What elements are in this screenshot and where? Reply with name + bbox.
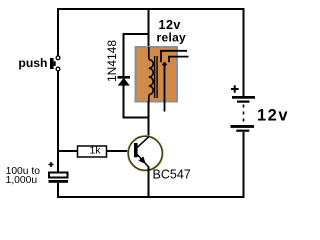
relay contact upper (NO) <box>161 51 187 62</box>
wire emitter to bottom rail <box>148 167 150 198</box>
svg-text:1,000u: 1,000u <box>6 175 38 186</box>
wire right rail upper <box>243 8 245 96</box>
svg-text:12v: 12v <box>257 106 289 124</box>
node base-resistor junction <box>58 150 78 152</box>
svg-text:1N4148: 1N4148 <box>105 40 119 82</box>
wire bottom rail <box>57 196 244 198</box>
transistor Q1 BC547 <box>128 136 163 171</box>
capacitor C1 electrolytic <box>49 162 69 183</box>
battery B1 12v <box>231 85 256 132</box>
push button S1 <box>50 56 60 71</box>
wire top rail <box>57 8 244 10</box>
svg-text:BC547: BC547 <box>153 168 191 182</box>
svg-text:push: push <box>18 56 47 70</box>
diode D1 1N4148 loop top wire <box>124 34 149 76</box>
diode loop bottom wire <box>124 84 149 118</box>
wire resistor to base <box>107 150 135 152</box>
relay armature pole with diamond <box>162 62 167 112</box>
wire relay branch from top rail <box>148 8 150 59</box>
resistor R1 1k <box>78 145 107 157</box>
wire relay coil to transistor collector <box>148 101 150 137</box>
wire right rail lower <box>243 132 245 198</box>
relay box <box>136 47 178 102</box>
wire capacitor to bottom rail <box>57 183 59 198</box>
wire left rail lower (button to bottom) <box>57 71 59 173</box>
svg-text:relay: relay <box>157 30 187 44</box>
relay core lines <box>154 56 156 98</box>
diode D1 symbol <box>118 76 131 86</box>
relay coil L1 <box>149 47 153 102</box>
relay contact lower (NC) <box>169 57 189 63</box>
wire left rail upper (to push button) <box>57 8 59 56</box>
svg-text:1k: 1k <box>89 145 101 157</box>
